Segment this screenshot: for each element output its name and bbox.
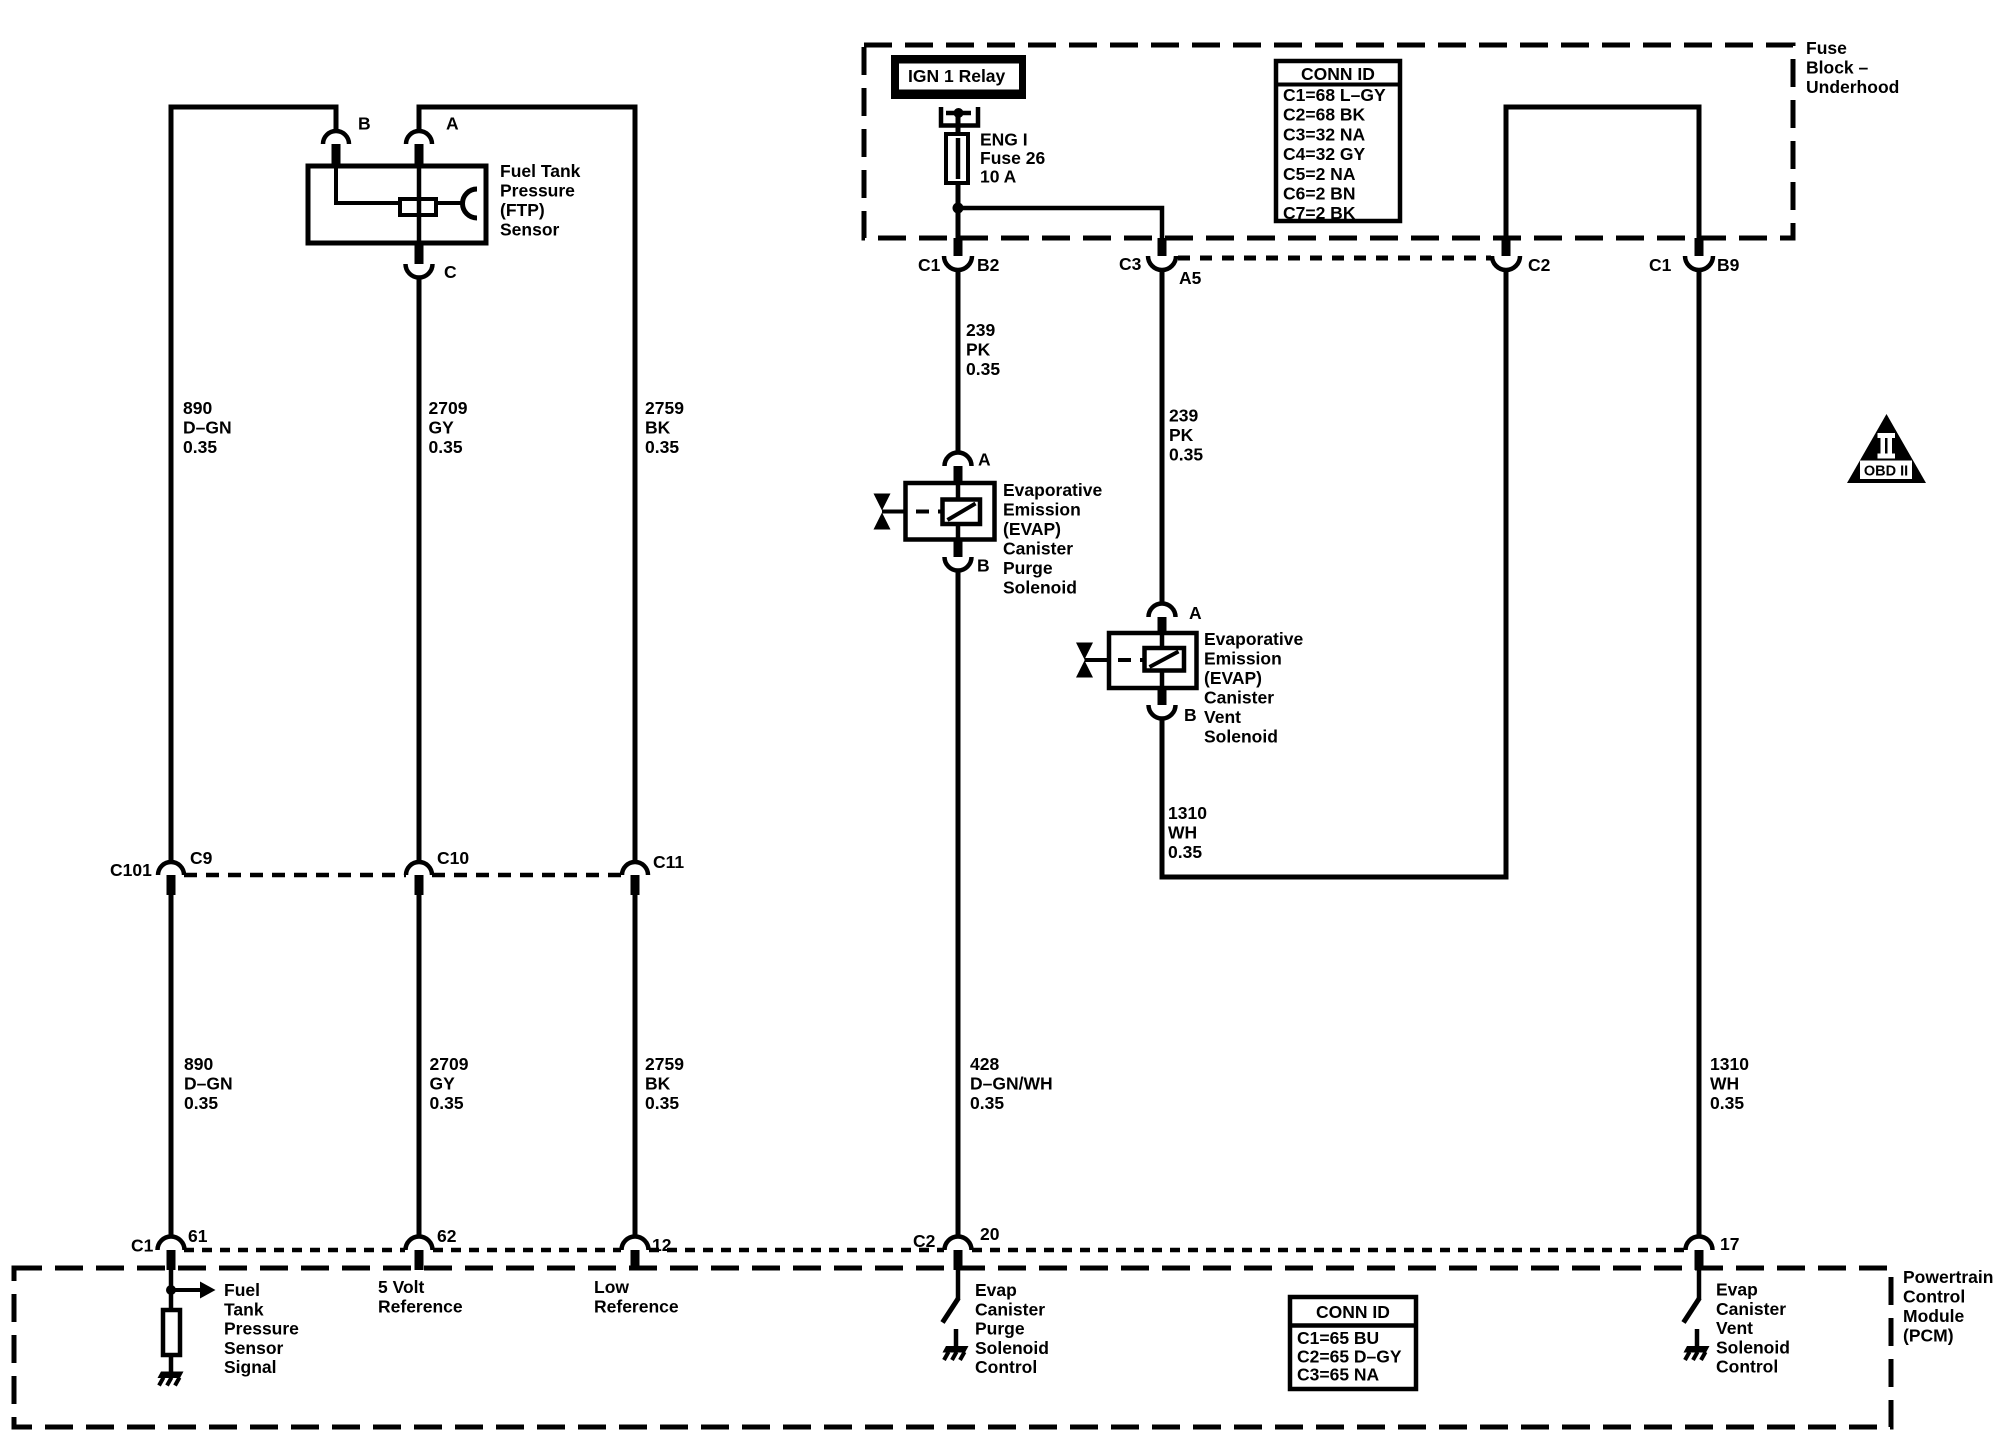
svg-text:BK: BK (645, 418, 671, 438)
purge solenoid valve dashed link (882, 510, 906, 514)
wire 2709 GY: C10 to PCM pin 62 (417, 895, 422, 1237)
connector C101 pin C11 (622, 862, 648, 875)
vent solenoid valve symbol (1076, 643, 1093, 660)
vent solenoid valve dashed link (1085, 658, 1109, 662)
svg-text:Pressure: Pressure (224, 1319, 299, 1339)
PCM internal: pin 17 driver switch (1697, 1270, 1702, 1299)
svg-text:C10: C10 (437, 848, 469, 868)
svg-text:Sensor: Sensor (224, 1338, 284, 1358)
relay box IGN 1 Relay (891, 55, 1026, 99)
fuse block - underhood dashed box (864, 45, 1793, 238)
svg-text:CONN ID: CONN ID (1316, 1302, 1390, 1322)
svg-text:C2=65 D–GY: C2=65 D–GY (1297, 1346, 1402, 1366)
svg-text:C4=32 GY: C4=32 GY (1283, 144, 1366, 164)
svg-text:Fuse: Fuse (1806, 38, 1847, 58)
svg-text:Reference: Reference (378, 1297, 463, 1317)
svg-text:C1: C1 (918, 255, 941, 275)
purge solenoid coil lead vertical (956, 483, 961, 540)
svg-text:C2: C2 (1528, 255, 1551, 275)
svg-text:Solenoid: Solenoid (975, 1338, 1049, 1358)
svg-text:61: 61 (188, 1226, 208, 1246)
pressure port symbol (C arc) (463, 189, 477, 218)
svg-text:17: 17 (1720, 1234, 1739, 1254)
PCM internal: pin 20 driver switch (956, 1270, 961, 1299)
wire 2759 BK: FTP sensor pin A loop top-right (419, 107, 635, 862)
svg-text:C2: C2 (913, 1231, 936, 1251)
svg-text:Canister: Canister (975, 1299, 1045, 1319)
fuse ENG I Fuse 26 10 A (946, 134, 968, 183)
connector pin 12 (PCM) (622, 1237, 649, 1251)
svg-text:B: B (358, 114, 371, 134)
svg-text:OBD II: OBD II (1864, 464, 1908, 480)
vent solenoid coil lead vertical (1160, 633, 1165, 688)
svg-text:20: 20 (980, 1224, 1000, 1244)
svg-text:239: 239 (966, 320, 995, 340)
svg-text:GY: GY (429, 418, 455, 438)
svg-text:0.35: 0.35 (966, 359, 1000, 379)
svg-text:Purge: Purge (975, 1319, 1025, 1339)
wire: relay terminal to fuse (956, 113, 961, 136)
svg-text:ENG I: ENG I (980, 130, 1028, 150)
wire: fuse to junction (956, 183, 961, 208)
svg-text:890: 890 (184, 1054, 213, 1074)
svg-text:D–GN: D–GN (184, 1074, 233, 1094)
svg-text:Evaporative: Evaporative (1003, 480, 1102, 500)
svg-text:0.35: 0.35 (1710, 1093, 1744, 1113)
wire: junction to C3 drop (958, 208, 1162, 238)
svg-text:Sensor: Sensor (500, 220, 560, 240)
purge solenoid coil resistor (943, 500, 981, 525)
svg-text:5 Volt: 5 Volt (378, 1277, 425, 1297)
signal arrow (174, 1288, 201, 1292)
wire resistor to ground (169, 1355, 174, 1372)
wire 1310 WH: B9 to PCM pin 17 (1697, 270, 1702, 1237)
svg-text:2759: 2759 (645, 398, 684, 418)
svg-text:Canister: Canister (1716, 1299, 1786, 1319)
svg-text:Vent: Vent (1716, 1318, 1753, 1338)
svg-text:Evaporative: Evaporative (1204, 629, 1303, 649)
svg-text:C1=65 BU: C1=65 BU (1297, 1328, 1379, 1348)
svg-text:C11: C11 (653, 852, 684, 872)
ground (PCM internal, pin 17) (1684, 1346, 1710, 1353)
connector pin 62 (PCM) (406, 1237, 433, 1251)
connector pin B of vent solenoid (1158, 688, 1167, 705)
svg-text:CONN ID: CONN ID (1301, 64, 1375, 84)
PCM connector dotted line (184, 1248, 405, 1253)
connector C2 (fuse block) (1502, 238, 1511, 256)
junction dot pin 61 (166, 1285, 176, 1295)
connector pin C of FTP sensor (415, 243, 424, 264)
svg-text:Fuel: Fuel (224, 1280, 260, 1300)
wire 2759 BK: C11 to PCM pin 12 (633, 895, 638, 1237)
wire 2709 GY: FTP pin C down to C10 (417, 277, 422, 862)
pressure port lead (436, 201, 462, 205)
svg-text:Control: Control (1903, 1287, 1965, 1307)
svg-text:Emission: Emission (1204, 649, 1282, 669)
svg-text:GY: GY (430, 1074, 456, 1094)
svg-text:A5: A5 (1179, 268, 1202, 288)
svg-text:Pressure: Pressure (500, 181, 575, 201)
svg-text:1310: 1310 (1710, 1054, 1749, 1074)
svg-text:Module: Module (1903, 1306, 1965, 1326)
relay terminal junction dot (954, 108, 964, 118)
FTP sensor box (308, 166, 486, 243)
svg-text:C7=2 BK: C7=2 BK (1283, 203, 1356, 223)
wire 239 PK: A5 to vent solenoid A (1160, 270, 1165, 605)
svg-text:Powertrain: Powertrain (1903, 1267, 1993, 1287)
svg-text:C9: C9 (190, 848, 213, 868)
svg-text:0.35: 0.35 (183, 437, 217, 457)
connector pin A of FTP sensor (406, 131, 432, 144)
svg-text:C3: C3 (1119, 254, 1142, 274)
OBD II symbol (1847, 414, 1926, 483)
svg-text:(EVAP): (EVAP) (1204, 668, 1262, 688)
svg-text:C1=68 L–GY: C1=68 L–GY (1283, 85, 1386, 105)
svg-text:C2=68 BK: C2=68 BK (1283, 105, 1366, 125)
svg-text:A: A (978, 450, 991, 470)
svg-text:C3=32 NA: C3=32 NA (1283, 124, 1366, 144)
svg-text:(PCM): (PCM) (1903, 1326, 1954, 1346)
svg-text:890: 890 (183, 398, 212, 418)
CONN ID table (fuse block) (1276, 61, 1400, 221)
wire: junction down to connector B2 (956, 208, 961, 240)
svg-text:2709: 2709 (429, 398, 468, 418)
connector pin B of FTP sensor (323, 131, 349, 144)
svg-text:1310: 1310 (1168, 803, 1207, 823)
svg-text:Solenoid: Solenoid (1716, 1337, 1790, 1357)
svg-text:D–GN/WH: D–GN/WH (970, 1074, 1053, 1094)
svg-text:Block –: Block – (1806, 58, 1869, 78)
ground (PCM internal, pin 20) (943, 1346, 969, 1353)
svg-text:PK: PK (1169, 425, 1194, 445)
svg-text:D–GN: D–GN (183, 418, 232, 438)
svg-text:Low: Low (594, 1277, 629, 1297)
svg-text:C1: C1 (131, 1236, 154, 1256)
svg-text:0.35: 0.35 (970, 1093, 1004, 1113)
connector pin A of purge solenoid (945, 453, 972, 466)
connector C2 pin 20 (PCM) (945, 1237, 972, 1251)
PCM internal: pin 61 wire (169, 1270, 174, 1310)
svg-text:WH: WH (1168, 823, 1197, 843)
svg-text:239: 239 (1169, 406, 1198, 426)
FTP internal lead pin A through resistor (417, 166, 422, 243)
svg-text:A: A (446, 114, 459, 134)
svg-text:(EVAP): (EVAP) (1003, 519, 1061, 539)
FTP internal wiper lead from pin B (336, 168, 400, 203)
svg-text:428: 428 (970, 1054, 999, 1074)
wire 1310 WH: vent solenoid B to C2 (1162, 270, 1506, 877)
svg-text:0.35: 0.35 (429, 437, 463, 457)
PCM pull-up resistor (163, 1310, 180, 1355)
svg-text:Fuse 26: Fuse 26 (980, 148, 1045, 168)
wire 239 PK: B2 to purge solenoid A (956, 270, 961, 453)
vent solenoid coil resistor (1145, 648, 1185, 671)
svg-text:WH: WH (1710, 1074, 1739, 1094)
connector pin 17 (PCM) (1686, 1237, 1713, 1251)
svg-text:62: 62 (437, 1226, 457, 1246)
svg-text:B: B (977, 556, 990, 576)
wire 890 D-GN: FTP sensor pin B loop top-left (171, 107, 336, 862)
svg-text:B2: B2 (977, 255, 1000, 275)
dotted harness line A5 to C2 (1178, 256, 1491, 261)
wire 428 D-GN/WH: purge B to PCM pin 20 (956, 570, 961, 1237)
wire: C2 leg inside fuse block (1506, 107, 1699, 240)
svg-text:A: A (1189, 603, 1202, 623)
svg-text:C: C (444, 262, 457, 282)
svg-text:Reference: Reference (594, 1297, 679, 1317)
wire 890 D-GN: C9 to PCM pin 61 (169, 895, 174, 1237)
svg-text:C6=2 BN: C6=2 BN (1283, 184, 1355, 204)
svg-text:Canister: Canister (1003, 539, 1073, 559)
svg-text:10 A: 10 A (980, 167, 1017, 187)
svg-text:B9: B9 (1717, 255, 1740, 275)
svg-text:Signal: Signal (224, 1357, 277, 1377)
svg-text:Solenoid: Solenoid (1204, 727, 1278, 747)
svg-text:Evap: Evap (975, 1280, 1017, 1300)
svg-text:0.35: 0.35 (645, 1093, 679, 1113)
powertrain control module dashed box (14, 1268, 1891, 1427)
relay output terminal bracket (941, 107, 978, 126)
ground (PCM internal, pin 61) (158, 1372, 184, 1379)
svg-text:C101: C101 (110, 860, 152, 880)
svg-text:Emission: Emission (1003, 500, 1081, 520)
svg-text:12: 12 (652, 1235, 672, 1255)
svg-text:Control: Control (1716, 1357, 1778, 1377)
EVAP canister vent solenoid box (1109, 633, 1197, 688)
svg-text:Purge: Purge (1003, 558, 1053, 578)
CONN ID table (PCM) (1290, 1297, 1416, 1389)
connector C1 pin B2 (fuse block output) (954, 238, 963, 256)
connector C1 pin B9 (fuse block) (1695, 238, 1704, 256)
svg-text:C5=2 NA: C5=2 NA (1283, 164, 1356, 184)
purge solenoid valve symbol (874, 494, 891, 511)
svg-text:Underhood: Underhood (1806, 77, 1899, 97)
connector C101 pin C9 (158, 862, 184, 875)
svg-text:Fuel Tank: Fuel Tank (500, 161, 581, 181)
connector pin B of purge solenoid (954, 540, 963, 558)
svg-text:0.35: 0.35 (430, 1093, 464, 1113)
svg-text:C3=65 NA: C3=65 NA (1297, 1365, 1380, 1385)
svg-text:Canister: Canister (1204, 688, 1274, 708)
connector C1 pin 61 (PCM) (158, 1237, 185, 1251)
svg-text:0.35: 0.35 (645, 437, 679, 457)
svg-text:Tank: Tank (224, 1299, 264, 1319)
svg-text:C1: C1 (1649, 255, 1672, 275)
svg-text:Solenoid: Solenoid (1003, 578, 1077, 598)
connector pin A of vent solenoid (1149, 604, 1176, 618)
svg-text:0.35: 0.35 (1169, 445, 1203, 465)
connector C101 pin C10 (406, 862, 432, 875)
svg-text:Control: Control (975, 1357, 1037, 1377)
svg-text:Vent: Vent (1204, 707, 1241, 727)
resistor element of FTP sensor (400, 199, 436, 215)
connector C101 dashed harness line (184, 873, 406, 878)
svg-text:BK: BK (645, 1074, 671, 1094)
svg-text:2759: 2759 (645, 1054, 684, 1074)
connector C3 pin A5 (fuse block output) (1158, 238, 1167, 256)
EVAP canister purge solenoid box (906, 483, 995, 540)
junction dot below fuse (953, 203, 964, 214)
svg-text:Evap: Evap (1716, 1280, 1758, 1300)
svg-text:(FTP): (FTP) (500, 200, 545, 220)
svg-text:0.35: 0.35 (1168, 842, 1202, 862)
svg-text:PK: PK (966, 340, 991, 360)
svg-text:IGN 1 Relay: IGN 1 Relay (908, 66, 1006, 86)
svg-text:2709: 2709 (430, 1054, 469, 1074)
svg-text:0.35: 0.35 (184, 1093, 218, 1113)
svg-text:B: B (1184, 705, 1197, 725)
